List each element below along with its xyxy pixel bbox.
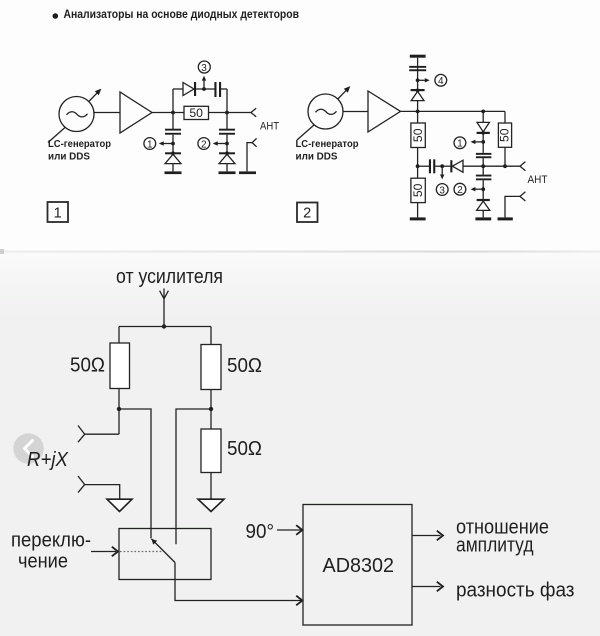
svg-text:Анализаторы на основе диодных: Анализаторы на основе диодных детекторов: [64, 7, 300, 21]
svg-text:LC-генератор: LC-генератор: [48, 138, 111, 150]
svg-text:4: 4: [438, 76, 444, 87]
svg-text:50: 50: [411, 128, 425, 142]
svg-text:или DDS: или DDS: [296, 151, 338, 163]
svg-text:50Ω: 50Ω: [227, 354, 262, 377]
svg-text:от усилителя: от усилителя: [116, 265, 223, 288]
svg-text:1: 1: [457, 139, 463, 150]
svg-text:50: 50: [497, 128, 511, 142]
svg-text:или DDS: или DDS: [48, 151, 90, 163]
svg-text:разность фаз: разность фаз: [456, 578, 575, 601]
svg-text:переклю-: переклю-: [11, 529, 91, 552]
svg-text:2: 2: [457, 185, 463, 196]
svg-text:LC-генератор: LC-генератор: [296, 138, 359, 150]
svg-text:50Ω: 50Ω: [70, 354, 105, 377]
svg-text:50: 50: [411, 183, 425, 197]
svg-text:3: 3: [201, 63, 207, 74]
svg-text:R+jX: R+jX: [27, 448, 69, 471]
svg-text:50: 50: [189, 106, 203, 120]
svg-text:1: 1: [147, 139, 153, 150]
svg-text:АНТ: АНТ: [528, 174, 548, 186]
svg-text:АНТ: АНТ: [260, 121, 279, 133]
svg-text:2: 2: [201, 139, 207, 150]
svg-text:чение: чение: [18, 550, 68, 573]
svg-text:2: 2: [303, 206, 311, 222]
svg-text:50Ω: 50Ω: [227, 437, 262, 460]
svg-text:3: 3: [439, 185, 445, 196]
svg-text:амплитуд: амплитуд: [456, 534, 534, 557]
svg-text:1: 1: [54, 205, 62, 221]
svg-text:AD8302: AD8302: [323, 554, 395, 577]
svg-text:90°: 90°: [246, 520, 275, 543]
